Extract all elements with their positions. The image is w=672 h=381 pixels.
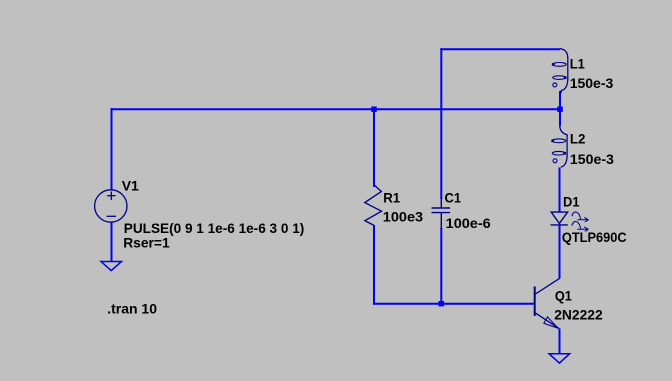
- D1 light arrows: [572, 212, 589, 231]
- svg-text:Q1: Q1: [555, 288, 572, 304]
- resistor R1: [365, 185, 382, 226]
- transistor Q1: [535, 278, 560, 328]
- svg-text:100e-6: 100e-6: [446, 215, 491, 231]
- svg-text:C1: C1: [445, 190, 462, 206]
- svg-text:R1: R1: [383, 189, 400, 205]
- svg-text:100e3: 100e3: [383, 209, 424, 225]
- wire: top horizontal net: [440, 48, 560, 50]
- svg-text:150e-3: 150e-3: [570, 75, 614, 91]
- wire: V1 top vertical: [111, 108, 113, 190]
- ground (Q1 emitter): [549, 354, 570, 363]
- svg-text:QTLP690C: QTLP690C: [562, 229, 627, 245]
- svg-text:.tran 10: .tran 10: [107, 300, 157, 316]
- voltage source V1: [95, 190, 127, 222]
- svg-text:L2: L2: [570, 131, 586, 147]
- wire: L1 bottom to junction: [559, 91, 561, 110]
- wire: R1 top lead: [373, 109, 375, 187]
- wire: Q1 emitter to ground: [559, 329, 561, 354]
- svg-text:L1: L1: [570, 55, 585, 71]
- svg-text:Rser=1: Rser=1: [123, 235, 170, 251]
- wire: C1 bottom vertical: [440, 228, 442, 304]
- inductor L1: [552, 49, 568, 93]
- ground (V1): [101, 262, 122, 271]
- capacitor C1: [432, 197, 451, 229]
- svg-text:D1: D1: [563, 194, 580, 210]
- wire: C1 top vertical: [440, 48, 442, 199]
- wire: L2 bottom to D1: [559, 168, 561, 212]
- wire: V1 bottom to ground: [111, 222, 113, 262]
- inductor L2: [551, 125, 567, 167]
- junction node L1-L2/mid: [557, 107, 563, 112]
- wire: bottom horizontal net / Q1 base: [373, 303, 535, 305]
- svg-text:PULSE(0 9 1 1e-6 1e-6 3 0 1): PULSE(0 9 1 1e-6 1e-6 3 0 1): [124, 220, 304, 236]
- svg-text:V1: V1: [122, 177, 139, 193]
- wire: mid horizontal net: [111, 108, 561, 110]
- wire: R1 bottom lead: [373, 225, 375, 305]
- junction node R1/mid: [371, 107, 377, 112]
- LED D1: [551, 212, 568, 225]
- svg-text:2N2222: 2N2222: [554, 306, 603, 322]
- junction node C1/bottom: [439, 301, 445, 306]
- wire: D1 to Q1 collector: [559, 226, 561, 279]
- svg-text:150e-3: 150e-3: [570, 151, 614, 167]
- wire: L2 top lead: [559, 108, 561, 126]
